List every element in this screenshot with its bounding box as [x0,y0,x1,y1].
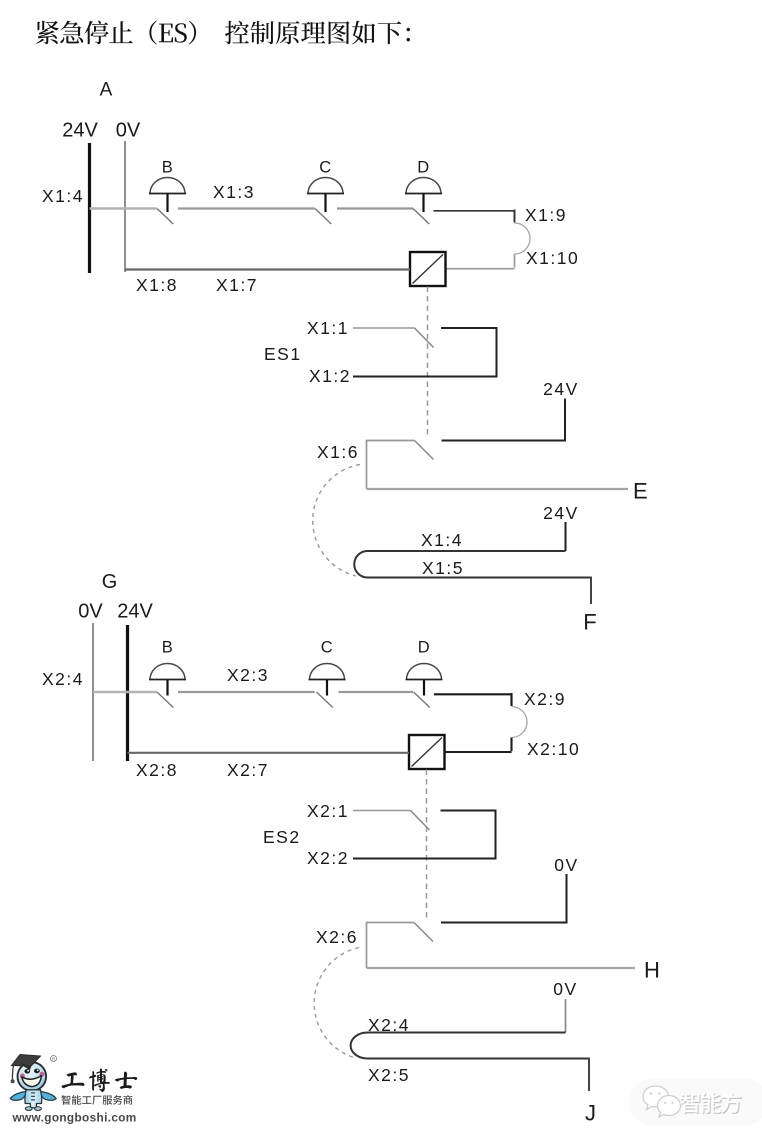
svg-text:B: B [162,159,174,177]
svg-text:E: E [633,479,648,504]
svg-text:X1:1: X1:1 [307,318,349,338]
svg-text:0V: 0V [78,601,103,623]
svg-text:X1:8: X1:8 [136,275,178,295]
wire B to C (X2:3 net) [178,691,315,693]
wechat badge background bar [629,1079,762,1125]
dashed cable arc X2:6 to X2:5 (section 2) [314,948,359,1059]
wire D to connector corner [434,211,515,222]
pushbutton C (section 1) mushroom head [308,178,343,194]
svg-text:X2:10: X2:10 [527,739,580,759]
svg-text:F: F [583,610,596,635]
logo mascot body [25,1090,42,1108]
svg-text:X2:2: X2:2 [307,848,349,868]
pushbutton B NC contact blade (section 1) [157,209,173,225]
svg-text:www.gongboshi.com: www.gongboshi.com [12,1111,137,1125]
wire connector down to relay coil right side (section 2) [445,751,512,753]
svg-text:X2:4: X2:4 [42,669,84,689]
wire 24V down to X1:6 contact fixed side [442,399,566,441]
wire X2:1 to ES2 contact [353,810,411,812]
svg-text:X2:4: X2:4 [368,1015,410,1035]
0V rail (thin vertical, section 1) [124,141,126,272]
svg-text:X1:2: X1:2 [309,366,351,386]
logo mascot right arm [41,1092,57,1101]
wire ES2 contact fixed side loop to X2:2 [353,811,496,859]
logo mascot cheeks [20,1074,25,1079]
wechat badge text 智能方 (embossed watermark) [681,1093,742,1114]
wire C to D [337,207,413,209]
wire connector down to relay coil right side [446,268,515,270]
svg-text:X2:9: X2:9 [524,689,566,709]
svg-text:X2:8: X2:8 [136,760,178,780]
wechat badge icon (speech bubbles) [643,1086,681,1117]
dashed cable arc X1:6 to X1:5 (section 1) [313,465,360,577]
svg-text:24V: 24V [117,601,153,623]
svg-text:24V: 24V [543,379,579,399]
wire 0V rail to pushbutton B (X2:4 net) [93,691,157,693]
wire 0V down to X2:6 contact fixed side [441,874,567,923]
X1:6 contact blade [415,441,434,460]
wire 0V down to X2:4 jumper [565,999,567,1033]
wire D to connector corner (section 2) [434,694,512,705]
svg-text:G: G [102,571,118,593]
svg-text:D: D [417,159,429,177]
0V rail (thin vertical, section 2) [92,623,94,761]
X1:6 contact left terminal wire [367,441,415,490]
wire down to node J [588,1058,590,1092]
svg-text:X2:5: X2:5 [368,1065,410,1085]
pushbutton D NC contact blade (section 2) [414,692,430,708]
mechanical link dashed line from ES1 coil [427,287,429,438]
pushbutton D NC contact blade (section 1) [413,209,429,225]
svg-text:0V: 0V [554,855,578,875]
24V power rail (thick vertical, section 1) [88,143,91,273]
relay coil ES2 (box with diagonal) [409,735,445,769]
pushbutton C NC contact blade (section 2) [317,692,333,708]
svg-text:H: H [644,958,660,983]
jumper loop X1:4 to X1:5 (U-turn) [354,551,591,578]
wire 24V rail to pushbutton B (X1:4 net) [90,207,157,209]
svg-text:X1:9: X1:9 [525,205,567,225]
svg-text:0V: 0V [116,120,141,142]
logo wordmark 工博士 [61,1068,137,1092]
X2:6 contact blade [414,923,433,942]
svg-text:X2:6: X2:6 [316,927,358,947]
svg-text:X1:6: X1:6 [317,442,359,462]
wire B to C (X1:3 net) [178,207,315,209]
svg-text:D: D [418,639,430,657]
logo mascot jacket buttons [31,1092,35,1100]
pushbutton B NC contact blade (section 2) [157,692,173,708]
svg-text:B: B [162,639,174,657]
bottom rail wire 0V to relay coil left (X1:8 / X1:7 net) [125,268,410,270]
svg-text:A: A [100,80,113,101]
svg-text:X2:3: X2:3 [227,665,269,685]
logo mascot cap tassel [12,1064,13,1080]
svg-text:J: J [585,1101,596,1126]
logo mascot feet [25,1107,32,1111]
wire to node H [367,967,636,969]
ES2 NC contact blade [411,811,430,831]
wire to node E [367,488,629,490]
svg-text:X1:3: X1:3 [213,182,255,202]
wire 24V down to X1:4 jumper [565,522,567,551]
svg-text:X2:1: X2:1 [307,801,349,821]
pushbutton D (section 2) mushroom head [407,664,442,680]
logo mascot left arm [10,1092,25,1101]
page title 紧急停止（ES）控制原理图如下： [36,21,196,45]
svg-text:0V: 0V [553,979,577,999]
svg-text:X1:10: X1:10 [526,248,579,268]
mechanical link dashed line from ES2 coil [426,770,428,920]
svg-text:X1:5: X1:5 [422,558,464,578]
svg-text:ES2: ES2 [263,827,301,847]
relay coil ES1 (box with diagonal) [410,252,446,286]
logo mascot eyes [24,1069,30,1074]
wire down to node F [590,577,592,605]
svg-text:24V: 24V [543,503,579,523]
wire ES1 contact fixed side loop to X1:2 [353,328,497,377]
jumper loop X2:4 to X2:5 (U-turn) [351,1033,589,1059]
logo subtitle 智能工厂服务商 [61,1095,132,1105]
wire X1:1 to ES1 contact [353,327,415,329]
svg-text:X1:4: X1:4 [42,186,84,206]
svg-text:24V: 24V [62,120,98,142]
svg-text:C: C [321,639,333,657]
logo mascot graduation cap [12,1055,41,1067]
pushbutton B (section 2) mushroom head [150,664,185,680]
pushbutton D (section 1) mushroom head [406,178,441,194]
logo registered trademark symbol [51,1056,57,1062]
logo mascot head [18,1062,47,1091]
svg-text:X1:7: X1:7 [216,275,258,295]
pushbutton B (section 1) mushroom head [150,178,185,194]
svg-text:X2:7: X2:7 [227,760,269,780]
pushbutton C NC contact blade (section 1) [315,209,331,225]
svg-text:X1:4: X1:4 [421,530,463,550]
wire C to D (section 2) [339,691,414,693]
bottom rail wire 24V to relay coil left (X2:8 / X2:7 net) [128,752,410,754]
connector loop X2:9-X2:10 (panel feed-through) [510,693,512,706]
pushbutton C (section 2) mushroom head [310,664,345,680]
logo mascot smile [22,1076,42,1087]
ES1 NC contact blade [415,328,434,348]
X2:6 contact left terminal wire [367,923,415,969]
svg-text:ES1: ES1 [264,344,302,364]
svg-text:C: C [319,159,331,177]
24V power rail (thick vertical, section 2) [126,625,129,761]
connector loop X1:9-X1:10 (panel feed-through) [514,210,516,223]
